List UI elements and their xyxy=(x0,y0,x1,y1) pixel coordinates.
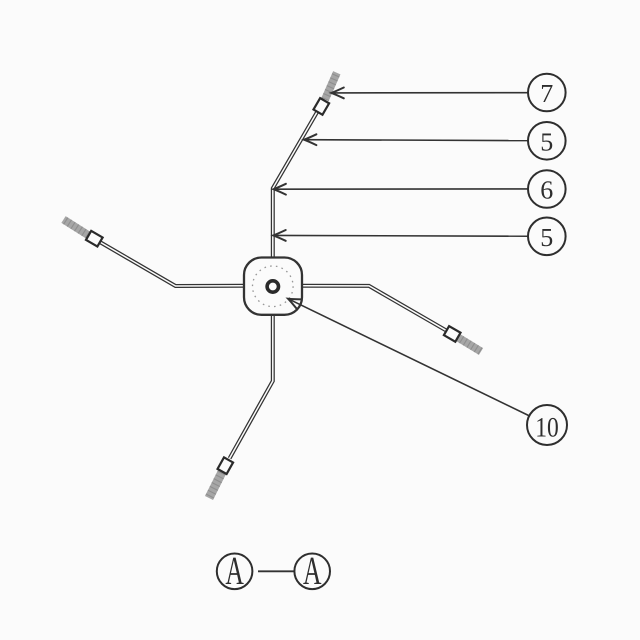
balloon 5 (upper) xyxy=(528,122,566,160)
stripped end E4 (bottom, gray) xyxy=(209,473,222,499)
arrow for 10 xyxy=(286,294,302,309)
wire W4 bottom cable core xyxy=(230,314,273,458)
hub center ring xyxy=(267,281,278,292)
svg-text:5: 5 xyxy=(540,128,553,157)
arrow for 7 xyxy=(331,88,343,99)
wire W1 upper cable: vertical + slant segment (outer) xyxy=(273,112,317,258)
section mark A (right) xyxy=(294,548,330,593)
wire W4 bottom cable (outer) xyxy=(230,314,273,458)
connector F4 (bottom ferrule) xyxy=(218,457,234,474)
leader line to 6 xyxy=(273,188,528,190)
svg-text:7: 7 xyxy=(540,79,553,108)
connector F2 (left ferrule) xyxy=(86,231,103,247)
wire W3 right cable core xyxy=(301,286,448,332)
hub dotted circle xyxy=(252,266,293,307)
wire W2 left cable (outer) xyxy=(100,242,245,286)
svg-text:6: 6 xyxy=(540,176,553,205)
balloon 10 xyxy=(527,405,567,445)
balloon 5 (lower) xyxy=(528,218,566,256)
leader line to 10 xyxy=(288,299,528,416)
section mark A (left) xyxy=(217,548,253,593)
svg-text:5: 5 xyxy=(540,223,553,252)
leader line to 5 (upper) xyxy=(304,139,528,142)
section line A-A xyxy=(258,570,294,572)
balloon 6 xyxy=(528,170,566,208)
arrow for 5 (upper) xyxy=(304,134,316,145)
wire W3 right cable (outer) xyxy=(301,286,448,332)
connector F3 (right ferrule) xyxy=(444,326,461,342)
connector F1 (top ferrule) xyxy=(313,98,329,115)
wire W1 upper cable core xyxy=(273,112,317,258)
svg-text:A: A xyxy=(303,548,322,593)
hub body (rounded square) xyxy=(244,258,302,315)
svg-text:10: 10 xyxy=(535,413,559,444)
leader line to 5 (lower) xyxy=(273,234,528,237)
stripped end E3 (right, gray) xyxy=(458,337,482,351)
svg-text:A: A xyxy=(225,548,244,593)
leader line to 7 xyxy=(331,92,528,94)
arrow for 5 (lower) xyxy=(273,230,285,241)
wire W2 left cable core xyxy=(100,242,245,286)
balloon 7 xyxy=(528,74,566,112)
stripped end E1 (top, gray) xyxy=(325,73,337,100)
arrow for 6 xyxy=(274,184,286,195)
stripped end E2 (left, gray) xyxy=(64,220,89,236)
